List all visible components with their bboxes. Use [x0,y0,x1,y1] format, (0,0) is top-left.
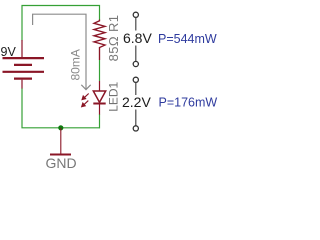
svg-text:LED1: LED1 [107,81,121,111]
svg-text:9V: 9V [1,45,17,59]
wire resistor to LED [99,60,101,81]
wire battery bottom to rail [22,88,100,128]
probe resistor top circle [133,12,138,17]
LED emission arrow 1 [82,94,89,100]
resistor R1 [94,20,105,61]
probe wire [135,46,137,62]
probe LED bottom circle [133,126,138,131]
LED LED1 [93,81,105,115]
wire top rail [22,6,100,41]
svg-text:80mA: 80mA [69,49,83,80]
battery BAT1 9V [3,40,45,89]
probe wire [135,18,137,31]
current arrowhead [81,85,90,90]
LED emission arrow 2 [82,101,89,107]
wire LED to bottom rail [99,114,101,128]
svg-text:2.2V: 2.2V [122,94,151,110]
svg-text:P=176mW: P=176mW [159,96,218,110]
current direction annotation bracket [33,14,86,89]
probe wire [135,83,137,95]
probe wire [135,110,137,126]
probe resistor bottom circle [133,61,138,66]
svg-text:85Ω R1: 85Ω R1 [106,15,121,62]
svg-text:6.8V: 6.8V [123,30,152,46]
probe LED top circle [133,77,138,82]
svg-text:P=544mW: P=544mW [158,32,217,46]
svg-text:GND: GND [46,155,77,170]
ground [60,128,62,154]
node junction dot [58,125,63,130]
